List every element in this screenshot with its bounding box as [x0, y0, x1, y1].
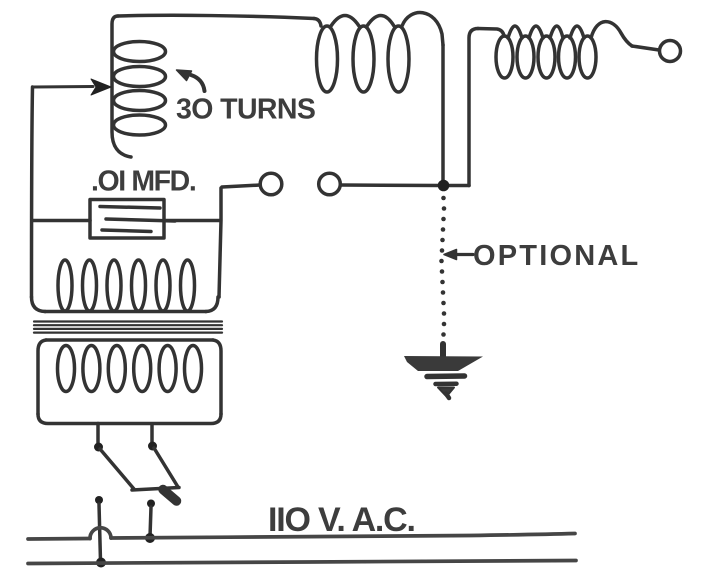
coil L3 loop 1: [496, 36, 513, 78]
dotted optional ground wire: [439, 196, 446, 337]
switch handle: [163, 490, 177, 502]
optional pointer arrowhead: [444, 250, 457, 260]
wire junction to L3 riser: [445, 184, 469, 188]
transformer secondary loop 5: [156, 260, 170, 311]
transformer primary right corner: [213, 340, 221, 414]
antenna terminal ball: [660, 41, 681, 62]
transformer primary bottom wire: [38, 414, 221, 424]
transformer secondary loop 2: [83, 260, 97, 311]
junction node dot: [438, 180, 450, 192]
transformer primary loop 1: [58, 346, 75, 392]
transformer primary loop 3: [108, 346, 125, 392]
coil L2 hump 1-2: [331, 16, 359, 27]
wire to antenna ball: [632, 46, 659, 50]
wire vertical riser to L3: [469, 29, 478, 186]
wire tap arrow line from left rail: [33, 85, 93, 89]
transformer primary loop 4: [134, 346, 151, 392]
wire left rail vertical: [32, 87, 33, 297]
ground symbol stub: [440, 344, 446, 357]
transformer primary loop 5: [159, 346, 176, 392]
coil L3 hump 2-3: [529, 26, 543, 38]
transformer secondary loop 6: [181, 260, 195, 311]
transformer primary loop 2: [83, 346, 100, 392]
wire left contact to line2: [99, 504, 101, 561]
ground bottom blob: [438, 388, 454, 397]
wire switch feed left: [96, 424, 100, 444]
coil L3 hump 3-4: [550, 26, 563, 38]
tap arrowhead: [91, 79, 111, 95]
wire switch feed right: [150, 424, 154, 442]
ground bar 3: [436, 381, 457, 386]
transformer secondary loop 4: [132, 260, 146, 311]
coil L3 loop 2: [517, 36, 534, 78]
coil L3 hump 1-2: [508, 26, 522, 38]
30-turns curved pointer: [191, 75, 205, 91]
coil L2 loop 3: [388, 26, 409, 92]
capacitor C1 plate line top: [100, 207, 160, 209]
transformer primary loop 6: [185, 346, 202, 392]
coil L2 entry dip: [314, 19, 321, 27]
transformer secondary bottom wire: [45, 310, 206, 314]
switch pivot dot left: [94, 443, 103, 452]
coil L3 hump 4-5: [570, 26, 584, 38]
node dot on line2: [96, 558, 106, 568]
coil L3 entry: [478, 29, 504, 37]
coil L1 loop 3: [114, 91, 166, 111]
coil L2 loop 2: [353, 26, 374, 92]
switch contact dot right: [147, 500, 155, 508]
wire vertical from L2 down to junction: [441, 45, 445, 183]
transformer primary top wire: [46, 338, 213, 342]
wire gap riser vertical: [219, 188, 221, 297]
coil L3 loop 4: [559, 36, 576, 78]
transformer secondary left corner: [32, 297, 46, 312]
transformer secondary right corner: [206, 297, 219, 312]
capacitor C1 body: [90, 200, 164, 239]
capacitor C1 plate line mid: [106, 219, 175, 221]
transformer secondary loop 3: [107, 260, 121, 311]
svg-text:3O TURNS: 3O TURNS: [176, 94, 315, 126]
coil L1 loop 1: [114, 42, 166, 62]
ground bar 2: [427, 373, 465, 379]
transformer core laminations: [34, 322, 222, 333]
wire cap riser to left gap ball: [222, 185, 260, 187]
coil L2 exit arc to down wire: [402, 13, 443, 45]
coil L3 exit arc: [591, 22, 632, 46]
transformer secondary loop 1: [58, 260, 72, 311]
spark gap ball left: [260, 173, 282, 195]
switch crossbar: [132, 488, 179, 491]
coil L1 loop 4: [114, 115, 166, 135]
spark gap ball right: [319, 173, 341, 195]
coil L2 loop 1: [317, 26, 338, 92]
AC line 2: [28, 561, 576, 564]
wire top horizontal from L1 to L2: [118, 15, 314, 18]
coil L2 hump 2-3: [367, 16, 394, 27]
switch pivot dot right: [148, 442, 157, 451]
svg-text:IIO V. A.C.: IIO V. A.C.: [268, 501, 415, 539]
svg-text:OPTIONAL: OPTIONAL: [473, 240, 640, 272]
AC line 1 with hop over wire: [28, 528, 576, 564]
30-turns pointer arrowhead: [177, 70, 192, 81]
coil L1 loop 2: [114, 67, 166, 87]
optional pointer arrow line: [452, 253, 473, 256]
switch contact dot left: [95, 496, 103, 504]
wire left rail to capacitor: [32, 219, 90, 223]
coil L1 30-turns tap coil stem: [112, 16, 131, 157]
switch blade left: [100, 449, 134, 489]
capacitor C1 plate line bottom: [102, 230, 151, 232]
coil L3 loop 3: [538, 36, 555, 78]
node dot on line1: [145, 533, 155, 543]
coil L3 loop 5: [579, 36, 596, 78]
ground bar 1: [404, 356, 483, 371]
wire right contact to line1: [150, 507, 151, 537]
svg-text:.OI MFD.: .OI MFD.: [91, 166, 195, 198]
transformer primary left corner: [38, 340, 46, 414]
wire capacitor to gap riser: [164, 219, 220, 223]
switch blade right: [154, 448, 178, 487]
wire right gap ball to junction: [341, 183, 442, 187]
